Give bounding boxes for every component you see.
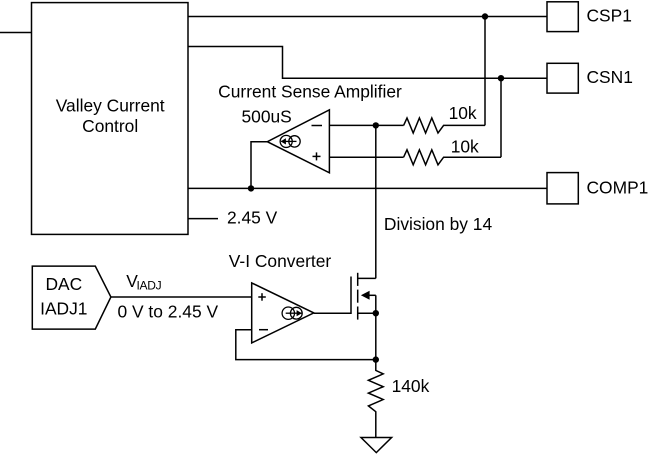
svg-text:10k: 10k <box>451 137 479 157</box>
svg-text:Current Sense Amplifier: Current Sense Amplifier <box>218 81 402 101</box>
svg-text:CSP1: CSP1 <box>587 5 632 25</box>
svg-text:DAC: DAC <box>45 274 82 294</box>
svg-text:Division by 14: Division by 14 <box>384 214 493 234</box>
svg-text:IADJ: IADJ <box>137 279 162 293</box>
svg-text:10k: 10k <box>449 103 477 123</box>
svg-text:IADJ1: IADJ1 <box>40 299 87 319</box>
svg-text:COMP1: COMP1 <box>587 177 648 197</box>
svg-text:Valley Current: Valley Current <box>56 96 165 116</box>
svg-text:140k: 140k <box>392 376 430 396</box>
svg-text:500uS: 500uS <box>242 106 292 126</box>
svg-text:CSN1: CSN1 <box>587 67 633 87</box>
svg-text:2.45 V: 2.45 V <box>227 207 278 227</box>
svg-text:0 V to 2.45 V: 0 V to 2.45 V <box>118 301 219 321</box>
svg-text:Control: Control <box>82 116 138 136</box>
svg-text:V-I Converter: V-I Converter <box>229 251 332 271</box>
